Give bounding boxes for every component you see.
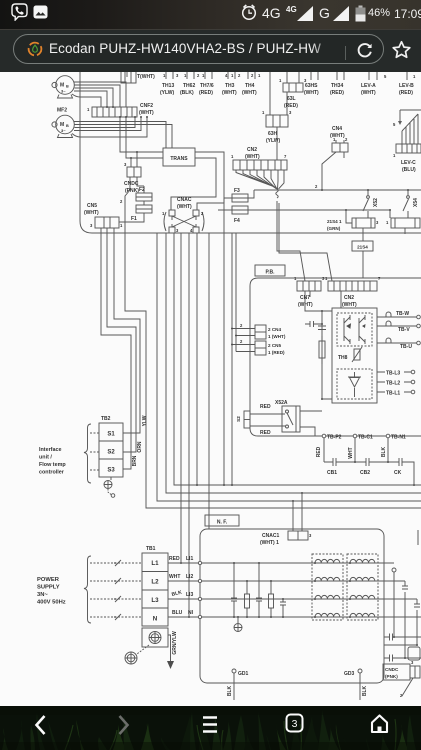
labels RED X52A xyxy=(260,404,271,436)
svg-text:RED: RED xyxy=(169,556,180,562)
svg-text:3: 3 xyxy=(90,223,93,228)
svg-text:TB-L2: TB-L2 xyxy=(386,381,400,387)
terminal GD1 xyxy=(227,669,249,700)
svg-text:N: N xyxy=(153,616,158,623)
connector CN5 (C.B.) xyxy=(90,217,123,228)
junction dots bus xyxy=(321,189,409,211)
bottom navigation bar xyxy=(0,706,421,750)
junction dots N.F. xyxy=(233,562,284,618)
svg-text:TH13: TH13 xyxy=(162,83,174,89)
wire long line 1 xyxy=(174,233,421,485)
right side wires beyond N.F. xyxy=(384,530,421,662)
menu icon xyxy=(202,713,218,736)
wire to TB1 N row xyxy=(188,233,190,617)
terminal LI1 xyxy=(186,556,202,565)
svg-text:1: 1 xyxy=(325,276,328,281)
wire CNAC pair down-left xyxy=(157,233,421,501)
wires MF2 to CNF2 and TRANS xyxy=(72,117,172,148)
wires coils xyxy=(346,210,405,241)
svg-text:BLK: BLK xyxy=(381,446,387,457)
terminal NI xyxy=(188,610,202,619)
TB1 earth cell xyxy=(142,628,168,647)
favicon xyxy=(27,41,43,57)
svg-text:F3: F3 xyxy=(234,188,240,194)
wires into CN4/CN5 P.B. xyxy=(232,233,250,485)
capacitor CB2 xyxy=(355,458,388,476)
choke junction dots xyxy=(314,562,351,618)
svg-text:(WHT): (WHT) xyxy=(298,302,313,308)
twisted pair mark xyxy=(276,189,278,198)
wire bundle CN5 to TB2 xyxy=(101,233,421,508)
svg-text:unit /: unit / xyxy=(39,455,52,461)
svg-text:S1: S1 xyxy=(107,432,115,438)
svg-text:S2: S2 xyxy=(236,416,241,422)
svg-text:(YLW): (YLW) xyxy=(266,138,280,144)
relay contact X52 xyxy=(363,190,379,218)
fan motor MF2 xyxy=(52,115,74,137)
signal triangle 2 xyxy=(333,6,350,21)
svg-text:2: 2 xyxy=(315,184,318,189)
dashed supply leads xyxy=(90,560,142,620)
connector CNF1 cut at top xyxy=(121,70,136,83)
svg-text:CNAC: CNAC xyxy=(177,197,192,203)
svg-text:LEV-A: LEV-A xyxy=(361,83,376,89)
svg-text:3: 3 xyxy=(411,660,414,665)
svg-text:CNDC: CNDC xyxy=(385,667,399,672)
wire riser pair xyxy=(196,233,198,485)
wire riser single xyxy=(208,233,210,529)
svg-text:(WHT) 1: (WHT) 1 xyxy=(260,540,279,546)
status bar xyxy=(0,0,421,30)
svg-text:BLK: BLK xyxy=(171,590,183,598)
label box N.F. xyxy=(205,515,239,526)
filter capacitor C1 xyxy=(231,563,237,617)
fan motor MF1 xyxy=(52,76,74,98)
svg-text:2: 2 xyxy=(197,73,200,78)
junction dots CB row xyxy=(354,461,389,463)
choke block 1 xyxy=(312,554,343,620)
svg-text:CN4: CN4 xyxy=(332,126,342,132)
svg-text:CNAC1: CNAC1 xyxy=(262,533,279,539)
diode bridge block xyxy=(337,369,372,399)
svg-text:BLK: BLK xyxy=(362,685,368,696)
earth wire GRN/YLW with arrow xyxy=(167,631,178,669)
wire colour labels RED WHT BLK BLU xyxy=(169,556,183,616)
label CN7 (WHT) xyxy=(298,295,313,308)
wire long line 2 xyxy=(166,233,421,493)
label LEV-C (BLU) xyxy=(401,160,416,173)
label 63L (RED) xyxy=(284,96,298,109)
wire CN2 to P.B. connectors xyxy=(277,201,332,281)
label CNAC (WHT) xyxy=(177,197,192,210)
choke block 2 xyxy=(347,554,378,620)
svg-text:L3: L3 xyxy=(151,597,159,604)
svg-text:LI1: LI1 xyxy=(186,556,193,562)
svg-text:1: 1 xyxy=(262,110,265,115)
filter resistor R2 xyxy=(269,581,274,617)
svg-text:F2: F2 xyxy=(139,187,145,193)
svg-text:CN5: CN5 xyxy=(87,203,97,209)
transformer TRANS xyxy=(163,148,195,166)
label interface unit flow temp controller xyxy=(39,447,66,476)
TB2 earth terminal xyxy=(104,477,115,497)
svg-text:GD1: GD1 xyxy=(238,671,249,677)
connector S2 xyxy=(236,411,250,428)
svg-text:(PNK): (PNK) xyxy=(385,674,398,679)
svg-text:BRN: BRN xyxy=(132,455,138,466)
svg-text:L2: L2 xyxy=(151,579,159,586)
label CN4 (WHT) xyxy=(330,126,345,139)
wire F3 branch down xyxy=(223,198,225,485)
svg-text:1: 1 xyxy=(231,154,234,159)
svg-text:2: 2 xyxy=(345,137,348,142)
svg-text:1: 1 xyxy=(386,220,389,225)
svg-text:MF2: MF2 xyxy=(57,108,67,114)
terminal TB-C1 xyxy=(353,434,373,440)
output TB-W xyxy=(377,311,420,319)
viber icon xyxy=(11,3,28,21)
svg-text:TRANS: TRANS xyxy=(170,156,188,162)
svg-text:2 CN4: 2 CN4 xyxy=(268,327,281,332)
junction dots motor wiring xyxy=(106,106,148,118)
label CN2 (WHT) P.B. xyxy=(342,295,357,308)
capacitor CK xyxy=(388,458,414,485)
svg-text:P.B.: P.B. xyxy=(265,270,275,276)
filter capacitor C5 xyxy=(280,599,286,617)
N.F. earth terminal xyxy=(234,617,242,632)
label CNDC (PNK) xyxy=(124,181,139,194)
signal triangle 1 xyxy=(297,6,314,21)
svg-text:7: 7 xyxy=(284,154,287,159)
svg-text:TH7/6: TH7/6 xyxy=(200,83,214,89)
svg-text:2: 2 xyxy=(240,323,243,328)
svg-text:3: 3 xyxy=(176,73,179,78)
label LEV-B xyxy=(399,83,414,96)
svg-text:RED: RED xyxy=(260,430,271,436)
svg-text:WHT: WHT xyxy=(169,574,180,580)
svg-text:2: 2 xyxy=(251,73,254,78)
svg-text:CNF2: CNF2 xyxy=(140,103,153,109)
svg-text:GRN/YLW: GRN/YLW xyxy=(172,631,178,655)
filter resistor R1 xyxy=(245,581,250,617)
svg-text:(WHT): (WHT) xyxy=(304,90,319,96)
svg-text:controller: controller xyxy=(39,470,65,476)
svg-text:400V 50Hz: 400V 50Hz xyxy=(37,600,66,606)
svg-text:CN2: CN2 xyxy=(344,295,354,301)
dashed leads TB2 xyxy=(90,433,99,470)
wires TB1 to N.F. xyxy=(168,563,198,617)
output TB-U xyxy=(377,338,420,350)
connector CN4 (P.B.) xyxy=(240,323,286,339)
svg-text:LEV-C: LEV-C xyxy=(401,160,416,166)
svg-text:(WHT): (WHT) xyxy=(177,204,192,210)
svg-text:RED: RED xyxy=(260,404,271,410)
svg-text:1: 1 xyxy=(87,107,90,112)
svg-text:21S4 1: 21S4 1 xyxy=(327,219,342,224)
wires X52A xyxy=(250,411,322,436)
svg-text:(RED): (RED) xyxy=(199,90,213,96)
svg-text:5: 5 xyxy=(384,74,387,79)
filter column left of module xyxy=(305,310,332,400)
svg-text:POWER: POWER xyxy=(37,577,60,583)
svg-text:3: 3 xyxy=(124,162,127,167)
svg-text:TH34: TH34 xyxy=(331,83,343,89)
top edge pin ticks xyxy=(127,72,407,80)
svg-text:63HS: 63HS xyxy=(305,83,318,89)
svg-text:(YLW): (YLW) xyxy=(160,90,174,96)
svg-text:63L: 63L xyxy=(287,96,296,102)
label POWER SUPPLY xyxy=(37,577,66,606)
svg-text:(GRN): (GRN) xyxy=(327,226,341,231)
CN2 fan-out wires xyxy=(236,170,284,189)
wire labels YLW ORN BRN xyxy=(132,415,148,466)
label box P.B. xyxy=(255,265,285,276)
battery icon xyxy=(355,5,366,22)
connector CNDC (N.F.) xyxy=(383,660,420,698)
external earth symbol xyxy=(125,645,149,664)
svg-text:YLW: YLW xyxy=(142,415,148,426)
relay contact X54 xyxy=(403,190,419,218)
control board C.B. outline xyxy=(80,72,421,233)
svg-text:TB-L3: TB-L3 xyxy=(386,371,400,377)
connector CN2 (P.B.) xyxy=(325,276,381,291)
terminal block TB2 xyxy=(99,423,123,477)
connector CNF2 xyxy=(87,107,137,117)
contactor coil right xyxy=(386,218,420,228)
wire drops TB-P2/C1/N1 xyxy=(324,438,388,462)
connector CN7 (P.B.) xyxy=(294,276,325,291)
svg-text:NI: NI xyxy=(188,610,194,616)
svg-text:(WHT): (WHT) xyxy=(342,302,357,308)
svg-text:63H: 63H xyxy=(268,131,278,137)
svg-text:WHT: WHT xyxy=(348,447,354,458)
svg-text:(WHT): (WHT) xyxy=(242,90,257,96)
connector CN2 (C.B.) xyxy=(231,154,287,170)
svg-text:X52: X52 xyxy=(373,198,379,207)
svg-text:(WHT): (WHT) xyxy=(361,90,376,96)
wires TRANS to CNAC xyxy=(171,152,224,210)
svg-text:CK: CK xyxy=(394,470,402,476)
svg-text:(WHT): (WHT) xyxy=(330,133,345,139)
output TB-L2 xyxy=(377,380,415,386)
svg-text:TH62: TH62 xyxy=(183,83,195,89)
output TB-L3 xyxy=(377,370,415,376)
connector CNDC (C.B.) xyxy=(124,162,141,177)
svg-text:ORN: ORN xyxy=(137,441,143,453)
grass wallpaper backdrop xyxy=(0,706,421,750)
transformer plug CNAC xyxy=(162,210,204,233)
svg-text:LEV-B: LEV-B xyxy=(399,83,414,89)
brace power supply xyxy=(84,556,91,623)
wire 63H down to CN2 xyxy=(276,127,278,160)
N.F. internal mains wires xyxy=(202,563,384,617)
svg-text:B: B xyxy=(66,124,69,128)
svg-text:LI3: LI3 xyxy=(186,592,193,598)
svg-text:1: 1 xyxy=(120,223,123,228)
alarm clock icon xyxy=(240,3,258,22)
svg-text:2 CN5: 2 CN5 xyxy=(268,343,281,348)
gallery icon xyxy=(33,5,48,19)
svg-text:(BLU): (BLU) xyxy=(402,167,416,173)
svg-text:BLU: BLU xyxy=(172,610,183,616)
svg-text:LI2: LI2 xyxy=(186,574,193,580)
svg-text:1: 1 xyxy=(393,153,396,158)
svg-text:1: 1 xyxy=(413,74,416,79)
svg-text:TB-C1: TB-C1 xyxy=(358,435,373,441)
reload icon xyxy=(355,40,374,59)
svg-text:(RED): (RED) xyxy=(284,103,298,109)
svg-text:(BLK): (BLK) xyxy=(180,90,194,96)
wire bus to relays xyxy=(254,189,421,191)
svg-text:TH3: TH3 xyxy=(225,83,235,89)
svg-text:1: 1 xyxy=(279,78,282,83)
svg-text:B: B xyxy=(66,85,69,89)
svg-text:TB1: TB1 xyxy=(146,546,156,552)
svg-text:CN2: CN2 xyxy=(247,147,257,153)
svg-text:7: 7 xyxy=(378,276,381,281)
thermistor TH8 xyxy=(338,347,362,362)
svg-text:2: 2 xyxy=(120,199,123,204)
boxed label 21S4 xyxy=(352,241,373,251)
label 63H (YLW) xyxy=(266,131,280,144)
tabs button xyxy=(285,712,304,734)
thermistor labels TH13 TH62 TH7/6 TH3 TH4 xyxy=(160,83,257,96)
wire CN4 to bus xyxy=(322,152,344,190)
svg-text:RED: RED xyxy=(316,446,322,457)
svg-text:(WHT): (WHT) xyxy=(245,154,260,160)
output TB-V xyxy=(377,321,420,333)
svg-text:(RED): (RED) xyxy=(399,90,413,96)
svg-text:3N~: 3N~ xyxy=(37,592,48,598)
svg-text:(WHT): (WHT) xyxy=(139,110,154,116)
svg-text:TB-U: TB-U xyxy=(400,344,412,350)
svg-text:X52A: X52A xyxy=(275,400,288,406)
filter capacitor C3 xyxy=(256,563,262,617)
junction dots long wires xyxy=(180,484,415,618)
svg-text:TB-N1: TB-N1 xyxy=(391,435,406,441)
svg-text:3: 3 xyxy=(309,533,312,538)
connector CN5 (P.B.) xyxy=(240,339,285,355)
svg-text:X54: X54 xyxy=(413,198,419,207)
svg-text:CB2: CB2 xyxy=(360,470,370,476)
terminal TB-N1 xyxy=(386,434,406,440)
terminal LI3 xyxy=(186,592,202,601)
terminal GD3 xyxy=(344,669,368,700)
label CN2 (WHT) xyxy=(245,147,260,160)
relay X52A xyxy=(275,400,300,432)
svg-text:3~: 3~ xyxy=(61,128,66,133)
svg-text:TB-P2: TB-P2 xyxy=(327,435,342,441)
output TB-L1 xyxy=(377,390,415,396)
brace TB2 xyxy=(84,424,91,483)
svg-text:SUPPLY: SUPPLY xyxy=(37,585,60,591)
expansion valve LEV-C xyxy=(393,110,421,158)
svg-text:F1: F1 xyxy=(131,216,137,222)
wires CNDC xyxy=(125,152,144,233)
svg-text:CB1: CB1 xyxy=(327,470,337,476)
svg-text:TB-L1: TB-L1 xyxy=(386,391,400,397)
wires MF1 to CNF2 xyxy=(72,82,126,107)
back chevron xyxy=(33,714,47,736)
svg-text:Interface: Interface xyxy=(39,447,61,453)
svg-text:TB2: TB2 xyxy=(101,416,111,422)
svg-text:3: 3 xyxy=(289,110,292,115)
svg-text:TH4: TH4 xyxy=(245,83,255,89)
svg-text:GD3: GD3 xyxy=(344,671,355,677)
svg-text:TB-V: TB-V xyxy=(398,327,410,333)
svg-text:1 (WHT): 1 (WHT) xyxy=(268,334,286,339)
svg-text:3: 3 xyxy=(376,220,379,225)
svg-text:1: 1 xyxy=(231,73,234,78)
svg-text:S3: S3 xyxy=(107,468,115,474)
terminal TB-P2 xyxy=(322,434,341,440)
svg-text:5: 5 xyxy=(393,122,396,127)
terminal block TB1 xyxy=(142,553,168,626)
connector 63L xyxy=(279,72,307,92)
address bar xyxy=(0,30,421,72)
svg-text:L1: L1 xyxy=(151,560,159,567)
power module box xyxy=(332,308,377,403)
noise filter N.F. outline xyxy=(200,529,384,683)
svg-text:N. F.: N. F. xyxy=(217,520,228,526)
fuse F4 xyxy=(218,206,390,224)
labels RED WHT BLK xyxy=(316,446,387,458)
svg-text:S2: S2 xyxy=(107,450,115,456)
svg-text:BLK: BLK xyxy=(227,685,233,696)
svg-text:TB-W: TB-W xyxy=(396,311,409,317)
svg-text:(WHT): (WHT) xyxy=(84,210,99,216)
IGBT block xyxy=(337,313,372,346)
wire CNF2 to TRANS xyxy=(120,117,163,158)
power board P.B. outline xyxy=(250,278,421,436)
fuse F2 xyxy=(136,186,152,205)
svg-text:Flow temp: Flow temp xyxy=(39,462,66,468)
label LEV-A xyxy=(361,83,376,96)
wire 21S4 down xyxy=(362,251,364,278)
contactor coil 21S4 xyxy=(327,218,379,231)
svg-text:(RED): (RED) xyxy=(330,90,344,96)
terminal LI2 xyxy=(186,574,202,583)
pin number row xyxy=(163,73,416,79)
svg-text:3: 3 xyxy=(292,718,298,730)
bookmark star icon xyxy=(391,40,412,60)
capacitor CB1 xyxy=(324,458,355,476)
svg-text:TH8: TH8 xyxy=(338,355,348,361)
forward chevron xyxy=(117,714,131,736)
svg-text:1: 1 xyxy=(294,276,297,281)
label TH34 xyxy=(330,83,344,96)
connector CN4 (C.B.) xyxy=(332,137,348,152)
svg-text:3~: 3~ xyxy=(61,89,66,94)
wire to TB1 L1 row xyxy=(180,233,182,563)
svg-text:3: 3 xyxy=(176,228,179,233)
fuse F3 xyxy=(224,188,254,202)
svg-text:F4: F4 xyxy=(234,218,240,224)
fuse F1 xyxy=(119,205,152,222)
svg-text:1: 1 xyxy=(258,73,261,78)
svg-text:2: 2 xyxy=(240,339,243,344)
wires CN7 to module column xyxy=(305,291,341,311)
svg-text:2: 2 xyxy=(238,73,241,78)
connector CNAC1 xyxy=(260,493,312,546)
svg-text:(WHT): (WHT) xyxy=(222,90,237,96)
svg-text:21S4: 21S4 xyxy=(357,245,368,250)
connector 63H xyxy=(262,72,292,127)
label 63HS xyxy=(304,83,319,96)
label CN5 (WHT) xyxy=(84,203,99,216)
svg-text:1 (RED): 1 (RED) xyxy=(268,350,285,355)
wires CN5 down xyxy=(101,228,114,233)
